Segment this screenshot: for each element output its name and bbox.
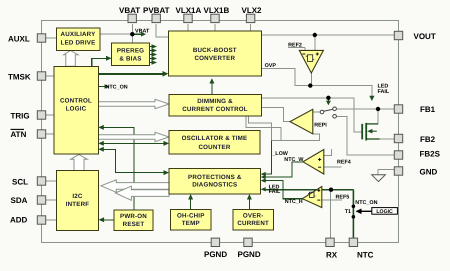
svg-text:NTC_ON: NTC_ON bbox=[355, 200, 377, 206]
svg-text:VLX2: VLX2 bbox=[242, 6, 263, 15]
svg-text:FAIL: FAIL bbox=[378, 89, 390, 95]
svg-text:FB1: FB1 bbox=[420, 105, 436, 114]
svg-text:RX: RX bbox=[326, 251, 338, 260]
svg-text:GND: GND bbox=[420, 168, 438, 177]
svg-text:AUXILIARY: AUXILIARY bbox=[61, 31, 97, 38]
svg-text:VBAT: VBAT bbox=[135, 29, 150, 35]
svg-text:I2C: I2C bbox=[72, 193, 83, 200]
svg-text:NTC_W: NTC_W bbox=[284, 157, 304, 163]
svg-text:TEMP: TEMP bbox=[182, 220, 200, 227]
svg-text:& BIAS: & BIAS bbox=[119, 56, 141, 63]
svg-text:CONTROL: CONTROL bbox=[60, 98, 92, 105]
svg-text:FAIL: FAIL bbox=[269, 189, 281, 195]
svg-text:SDA: SDA bbox=[11, 196, 28, 205]
svg-text:PWR-ON: PWR-ON bbox=[120, 213, 147, 220]
svg-text:LOGIC: LOGIC bbox=[376, 209, 393, 215]
svg-text:REF2: REF2 bbox=[288, 42, 302, 48]
svg-text:COUNTER: COUNTER bbox=[199, 144, 231, 151]
svg-text:CURRENT CONTROL: CURRENT CONTROL bbox=[182, 106, 248, 113]
svg-text:ATN: ATN bbox=[11, 130, 27, 139]
svg-text:VLX1B: VLX1B bbox=[204, 6, 230, 15]
svg-text:LOGIC: LOGIC bbox=[66, 106, 87, 113]
svg-text:PROTECTIONS &: PROTECTIONS & bbox=[188, 174, 242, 181]
svg-text:NTC_H: NTC_H bbox=[285, 199, 303, 205]
svg-text:REF4: REF4 bbox=[337, 159, 351, 165]
svg-text:NTC: NTC bbox=[357, 251, 374, 260]
svg-text:CURRENT: CURRENT bbox=[237, 220, 269, 227]
svg-text:CONVERTER: CONVERTER bbox=[194, 55, 235, 62]
svg-text:DIMMING &: DIMMING & bbox=[197, 98, 233, 105]
svg-text:OSCILLATOR & TIME: OSCILLATOR & TIME bbox=[182, 135, 248, 142]
svg-text:OVP: OVP bbox=[265, 63, 277, 69]
svg-text:REF5: REF5 bbox=[336, 194, 350, 200]
svg-text:PGND: PGND bbox=[204, 250, 227, 259]
svg-text:RESET: RESET bbox=[123, 221, 145, 228]
svg-text:OH-CHIP: OH-CHIP bbox=[177, 213, 205, 220]
svg-text:T1: T1 bbox=[345, 209, 351, 215]
svg-text:SCL: SCL bbox=[12, 178, 28, 187]
svg-text:ADD: ADD bbox=[10, 216, 28, 225]
svg-text:AUXL: AUXL bbox=[8, 35, 30, 44]
svg-text:VLX1A: VLX1A bbox=[176, 6, 202, 15]
svg-text:INTERF: INTERF bbox=[66, 201, 90, 208]
svg-text:DIAGNOSTICS: DIAGNOSTICS bbox=[192, 182, 237, 189]
svg-text:PVBAT: PVBAT bbox=[143, 6, 170, 15]
svg-text:TRIG: TRIG bbox=[11, 112, 30, 121]
svg-text:PREREG: PREREG bbox=[117, 48, 144, 55]
svg-text:FB2: FB2 bbox=[420, 135, 436, 144]
svg-text:LED DRIVE: LED DRIVE bbox=[61, 40, 96, 47]
svg-text:OVER-: OVER- bbox=[243, 213, 264, 220]
svg-text:PGND: PGND bbox=[238, 250, 261, 259]
svg-text:NTC_ON: NTC_ON bbox=[106, 85, 128, 91]
svg-text:REPI: REPI bbox=[314, 123, 327, 129]
svg-text:VOUT: VOUT bbox=[414, 32, 436, 41]
svg-text:FB2S: FB2S bbox=[420, 150, 441, 159]
svg-text:TMSK: TMSK bbox=[8, 73, 31, 82]
svg-text:BUCK-BOOST: BUCK-BOOST bbox=[193, 47, 237, 54]
svg-text:VBAT: VBAT bbox=[119, 6, 140, 15]
